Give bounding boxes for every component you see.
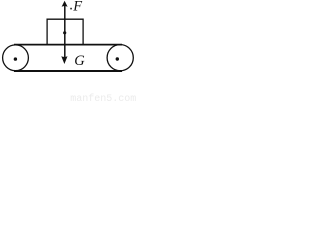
svg-text:G: G bbox=[74, 53, 85, 69]
svg-text:manfen5.com: manfen5.com bbox=[70, 93, 136, 103]
arrowhead G (down) bbox=[61, 56, 67, 64]
belt top line bbox=[14, 44, 122, 46]
arrowhead F (up) bbox=[62, 1, 68, 7]
belt bottom line bbox=[14, 70, 122, 72]
svg-text:F: F bbox=[72, 0, 82, 15]
force line (shaft of F and G arrows) bbox=[64, 5, 66, 59]
roller right axle dot bbox=[116, 57, 119, 60]
block center of gravity dot bbox=[63, 31, 66, 34]
serif tail speck of F bbox=[70, 8, 72, 10]
roller right bbox=[107, 45, 133, 71]
block on belt bbox=[47, 19, 83, 45]
roller left axle dot bbox=[14, 57, 17, 60]
roller left bbox=[3, 45, 29, 71]
